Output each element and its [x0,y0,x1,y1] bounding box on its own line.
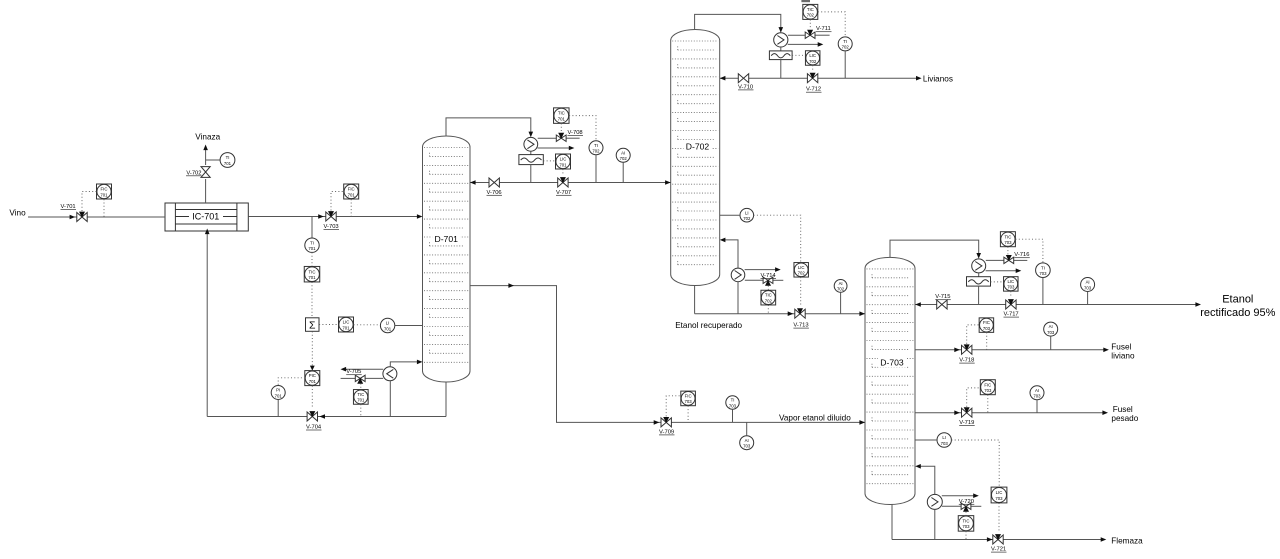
wire bottoms header [207,416,446,418]
wire fusel liviano line [915,349,1105,351]
flow arrow Fusel pesado [1102,410,1108,415]
signal LIC to V-712 [812,65,814,71]
valve V-709 [661,417,671,427]
svg-text:IC-701: IC-701 [192,212,219,222]
instrument TIC-702 (condenser) [803,4,818,19]
flow arrow into IC-701 bottom [205,229,210,235]
wire pump discharge to column [390,362,418,367]
svg-text:AI: AI [839,281,843,286]
wire steam valve line [341,377,384,379]
signal FIC to V-719 [967,388,981,407]
node Vino stream label [9,209,26,218]
svg-text:Livianos: Livianos [923,74,953,83]
wire vent line V-708 [538,137,580,139]
valve V-706 [489,178,499,187]
signal drum to LIC [543,160,555,162]
pump P-703 [927,494,942,509]
instrument AI-703 (fusel pesado) [1030,386,1044,400]
svg-text:V-709: V-709 [659,429,674,435]
reflux drum D-702 [769,51,792,60]
svg-text:D-702: D-702 [686,142,710,152]
valve V-715 [937,300,947,309]
svg-text:TI: TI [1041,265,1045,270]
valve V-716 [1004,255,1014,264]
signal PIC to V-704 [311,386,313,408]
instrument LIC-702 (drum) [805,51,820,66]
wire TI-702 stem [595,155,597,183]
svg-text:TI: TI [226,155,230,160]
signal V-714 to TIC 2 [767,286,769,291]
svg-text:V-714: V-714 [761,273,777,279]
svg-text:V-717: V-717 [1004,312,1019,318]
svg-text:703: 703 [983,326,991,331]
valve V-710 [738,74,748,83]
valve V-719 [962,407,972,417]
label V-721 [991,547,1007,553]
instrument TIC-701 [304,266,320,282]
signal FIC tap fusel pesado [987,395,989,413]
svg-text:V-702: V-702 [186,170,201,176]
wire D-701 overhead [446,118,531,136]
svg-text:TI: TI [731,398,735,403]
wire steam arrow line 3 [942,493,979,498]
instrument TI-703 (product) [1036,263,1051,278]
svg-text:TIC: TIC [558,111,565,116]
flow arrow before V-701 [70,215,76,220]
label V-709 [659,429,675,435]
instrument LI-702 [740,208,754,222]
label V-717 [1004,312,1020,318]
node Vinaza stream label [195,132,220,141]
label V-720 [959,499,975,505]
svg-text:V-720: V-720 [959,499,974,505]
wire AI stem 3 [1087,292,1089,305]
reflux drum D-701 [519,155,543,165]
node Vapor etanol diluido label [779,413,851,422]
instrument LIC-703 (drum) [1004,277,1019,292]
condenser E-703 [972,259,986,273]
wire vent line V-711 [788,34,830,36]
condenser E-702 [774,33,788,47]
svg-text:702: 702 [620,156,628,161]
flow arrow into V-703 [318,214,324,219]
svg-text:702: 702 [798,271,806,276]
valve V-702 [201,167,210,178]
svg-text:LIC: LIC [798,265,805,270]
svg-text:LIC: LIC [343,320,350,325]
node Etanol recuperado label [675,321,742,330]
label V-704 [306,425,322,431]
instrument AI-702 (recuperado) [834,280,847,293]
instrument TIC-703 (reboiler) [958,516,974,532]
svg-text:AI: AI [621,150,625,155]
signal FIC tap after V-703 [350,199,352,216]
wire pump suction riser [389,381,391,417]
svg-text:V-721: V-721 [991,547,1006,553]
svg-text:D-703: D-703 [880,358,904,368]
svg-text:AI: AI [1086,280,1090,285]
instrument FIC-703 (fusel liviano) [979,318,994,333]
svg-text:FIC: FIC [101,187,108,192]
wire AI stem fusel liviano [1050,336,1052,350]
wire TI-701 stub [206,159,220,161]
wire bottoms riser to IC-701 [206,232,208,417]
flow arrow feed into D-702 [665,180,671,185]
signal TIC bottoms tap 2 [767,305,769,314]
instrument TI-701 (feed) [305,238,319,252]
node Fusel liviano label [1111,343,1135,361]
svg-text:V-703: V-703 [324,224,339,230]
flow arrow Flemaza [1101,537,1107,542]
flow arrow reboiler return 3 [915,464,921,469]
valve V-721 [993,534,1003,544]
valve V-711 [805,30,815,39]
instrument AI-702 (condensate) [616,148,630,162]
svg-text:702: 702 [765,298,773,303]
signal LIC to V-713 [800,277,802,306]
column D-701 [423,136,471,382]
svg-text:703: 703 [941,441,949,446]
flow arrow before V-709 [654,420,660,425]
flow arrow feed into D-701 [417,214,423,219]
instrument AI-703 (vapor) [740,436,754,450]
instrument PI-701 [271,386,285,400]
wire TI-703 stem [732,409,734,422]
wire LI-702 tap [720,214,740,216]
instrument TI-702 (condensate) [589,141,603,155]
signal TI to TIC [311,252,313,266]
wire D-703 overhead [890,240,979,257]
wire PI-701 stem [277,400,279,417]
valve V-714 [763,277,773,286]
svg-text:701: 701 [559,162,567,167]
wire condensate header [470,182,671,184]
label V-703 [324,224,340,230]
wire condenser outlet arrow 2 [788,42,824,47]
flow arrow reflux into D-703 [915,302,921,307]
wire product header [915,304,1195,306]
svg-text:701: 701 [348,192,356,197]
wire drum drain 2 [780,60,782,79]
svg-text:LI: LI [942,435,946,440]
instrument TI-703 (vapor) [726,396,739,409]
svg-text:V-719: V-719 [959,420,974,426]
svg-text:FIC: FIC [984,382,991,387]
instrument LIC-701 [339,317,354,332]
wire drum drain 3 [978,286,980,304]
instrument TIC-702 (reboiler) [761,290,776,305]
label V-707 [556,190,572,196]
wire reboiler return D-703 [919,466,935,494]
instrument LIC-701 (drum) [556,154,571,169]
signal FIC-701 tap [103,199,105,216]
signal TIC bottoms tap [360,404,362,416]
reflux drum D-703 [967,277,991,286]
svg-text:TIC: TIC [357,392,364,397]
signal LIC to V-707 [562,169,564,175]
wire drum drain [530,165,532,183]
label V-713 [793,323,809,329]
wire IC-701 to D-701 feed [248,216,418,218]
svg-text:703: 703 [1007,285,1015,290]
controller sum block [306,318,320,332]
svg-text:701: 701 [224,161,232,166]
svg-text:703: 703 [729,403,737,408]
label V-702 [186,170,202,176]
label V-712 [806,87,822,93]
instrument TIC-701 (condenser) [554,108,570,124]
wire side draw [470,286,865,423]
flow arrow side draw [508,283,514,288]
svg-text:LIC: LIC [1007,279,1014,284]
valve V-707 [558,177,568,187]
flow arrow Fusel liviano [1103,348,1109,353]
svg-text:702: 702 [837,287,845,292]
svg-text:702: 702 [743,216,751,221]
wire livianos header [720,77,918,79]
wire LI-701 tap [395,325,423,327]
svg-text:FIC: FIC [685,394,692,399]
instrument FIC-701 (feed) [97,184,112,199]
instrument PIC-701 [305,371,320,386]
wire D-702 bottoms outlet [694,285,696,314]
signal TIC to V-711 [809,20,811,30]
svg-text:liviano: liviano [1111,352,1135,361]
instrument TIC-703 (condenser) [1000,232,1015,247]
wire condenser to drum 3 [978,273,980,277]
svg-text:TI: TI [594,143,598,148]
svg-text:V-718: V-718 [959,358,974,364]
label V-701 [61,204,77,210]
svg-text:PIC: PIC [309,373,316,378]
svg-text:LIC: LIC [560,157,567,162]
label V-705 [346,369,362,375]
svg-text:701: 701 [558,116,566,121]
svg-text:V-708: V-708 [568,130,583,136]
svg-text:Flemaza: Flemaza [1111,536,1143,545]
wire fusel pesado line [915,412,1104,414]
label V-716 [1014,252,1030,258]
svg-text:PI: PI [276,388,280,393]
svg-text:703: 703 [685,399,693,404]
wire vent line V-716 [986,259,1028,261]
svg-text:701: 701 [275,393,283,398]
svg-text:702: 702 [809,59,817,64]
svg-text:Vinaza: Vinaza [195,132,220,141]
valve V-720 [961,503,971,512]
svg-text:Fusel: Fusel [1111,343,1131,352]
svg-text:V-712: V-712 [806,87,821,93]
svg-text:702: 702 [592,149,600,154]
flow arrow into V-704 [319,414,325,419]
column D-703 [865,257,915,504]
cropped signal stub [801,0,810,2]
flow arrow into condenser E-703 [976,253,981,259]
flow arrow before V-721 [987,537,993,542]
svg-text:TI: TI [310,240,314,245]
instrument TI-702 (livianos) [838,37,852,51]
wire D-702 overhead [695,14,781,29]
wire TI stem 3 [1042,278,1044,305]
heat exchanger IC-701 [165,203,248,231]
signal TIC to V-716 [1007,247,1009,255]
signal drum to LIC 3 [991,281,1004,283]
flow arrow reflux into D-702 [720,76,726,81]
flow arrow before V-718 [954,348,960,353]
flow arrow into D-703 recuperado [859,311,865,316]
wire AI stem fusel pesado [1036,400,1038,413]
node Etanol rectificado label [1200,294,1275,320]
condenser E-701 [524,137,538,151]
svg-text:V-701: V-701 [61,204,76,210]
svg-text:703: 703 [1033,394,1041,399]
valve V-708 [556,133,566,142]
signal LI to LIC [754,215,801,262]
svg-text:703: 703 [1004,240,1012,245]
node Fusel pesado label [1111,405,1138,423]
label V-710 [738,84,754,90]
pump P-702 [731,268,745,282]
signal FIC to V-718 [967,325,979,344]
flow arrow reflux into D-701 [470,180,476,185]
valve V-705 [355,375,365,384]
svg-text:LI: LI [386,321,390,326]
signal V-720 to TIC 3 [965,512,967,516]
svg-text:703: 703 [743,444,751,449]
svg-text:V-716: V-716 [1014,252,1029,258]
svg-text:703: 703 [1084,285,1092,290]
instrument TIC-701 (reboiler) [353,390,368,405]
svg-text:TIC: TIC [1004,234,1011,239]
signal FIC vapor tap [687,406,689,423]
signal V-705 to TIC [360,384,362,390]
flow arrow Vinaza [203,145,208,151]
svg-text:AI: AI [1049,324,1053,329]
label V-706 [487,190,503,196]
wire vinaza riser [205,147,207,204]
svg-text:TI: TI [843,39,847,44]
svg-text:703: 703 [984,388,992,393]
svg-text:701: 701 [100,192,108,197]
svg-text:701: 701 [342,325,350,330]
wire TI-701 stem [311,217,313,239]
svg-text:AI: AI [1035,388,1039,393]
wire etanol recuperado line [695,313,865,315]
signal PIC to PI [278,378,305,386]
signal LIC to V-717 [1010,291,1012,297]
signal TIC to TI-702 [569,116,596,141]
label V-719 [959,420,975,426]
label V-711 [816,26,832,32]
wire condenser to drum 2 [780,47,782,51]
svg-text:V-715: V-715 [935,294,950,300]
instrument FIC-701 (column feed) [344,184,359,199]
signal TIC to TI-703 [1016,239,1043,262]
signal TIC to V-708 [560,123,562,132]
valve V-704 [307,411,317,421]
svg-text:V-706: V-706 [487,190,502,196]
wire AI stem 2 [840,292,842,313]
svg-text:703: 703 [962,524,970,529]
signal sum to LIC [319,324,338,326]
wire pump riser 2 [737,282,739,314]
node Livianos stream label [923,74,953,83]
wire condenser to drum [530,151,532,154]
flow arrow into condenser E-702 [779,27,784,33]
signal drum to LIC 2 [792,54,805,56]
svg-text:Vapor etanol diluido: Vapor etanol diluido [779,413,851,422]
svg-text:TIC: TIC [765,293,772,298]
svg-text:V-710: V-710 [738,84,753,90]
svg-text:rectificado 95%: rectificado 95% [1200,307,1275,319]
svg-text:703: 703 [1047,330,1055,335]
valve V-703 [326,211,336,221]
svg-text:Fusel: Fusel [1113,405,1133,414]
instrument LIC-702 (bottoms) [794,263,809,278]
flow arrow Etanol rectificado [1195,302,1201,307]
instrument TI-701 (vinaza) [220,153,235,168]
svg-text:TIC: TIC [963,519,970,524]
signal FIC-701 to V-701 [82,192,96,212]
wire steam valve line 3 [942,505,981,507]
svg-text:Vino: Vino [9,209,26,218]
svg-text:D-701: D-701 [434,234,458,244]
flow arrow reboiler return [417,360,423,365]
column D-702 [671,30,720,286]
signal LIC to LI [354,324,381,326]
svg-text:V-711: V-711 [816,26,831,32]
svg-text:701: 701 [357,398,365,403]
svg-text:701: 701 [308,275,316,280]
wire condenser outlet arrow 3 [986,268,1022,273]
wire reboiler return D-702 [724,240,738,268]
signal FIC tap fusel liviano [986,332,988,349]
wire AI-702 stem [622,162,624,182]
svg-text:701: 701 [384,326,392,331]
svg-text:702: 702 [807,13,815,18]
svg-text:LI: LI [745,210,749,215]
wire Vino feed line [28,216,165,218]
signal sum to PIC [310,331,315,370]
svg-text:V-704: V-704 [306,425,322,431]
label V-708 [568,130,584,136]
label V-715 [935,294,951,300]
flow arrow before V-719 [954,410,960,415]
signal TIC to TI-702 [818,12,845,37]
wire steam arrow line [341,367,384,372]
wire AI-703 stem [746,422,748,435]
svg-text:701: 701 [309,379,317,384]
instrument LI-701 [380,318,394,332]
svg-text:703: 703 [995,496,1003,501]
svg-text:Etanol recuperado: Etanol recuperado [675,321,742,330]
signal LIC to V-721 [998,503,1000,532]
instrument LIC-703 (bottoms) [991,487,1007,503]
svg-text:Σ: Σ [309,320,316,332]
instrument LI-703 [937,433,951,447]
valve V-712 [807,73,817,83]
svg-text:V-707: V-707 [556,190,571,196]
wire D-701 bottoms outlet [445,382,447,417]
svg-text:701: 701 [308,246,316,251]
wire TI stem [844,51,846,78]
valve V-713 [795,308,805,318]
label V-718 [959,358,975,364]
svg-text:AI: AI [745,438,749,443]
pump P-701 [383,367,397,381]
wire flemaza line [892,539,1102,541]
instrument AI-703 (product) [1081,278,1095,292]
